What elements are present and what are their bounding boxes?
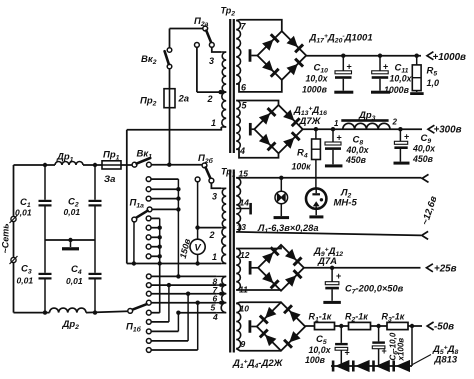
wire bottom rail left [14, 312, 50, 314]
wire P1b row9 riser to tap5 [151, 349, 198, 351]
svg-text:10,0х: 10,0х [309, 345, 332, 355]
wire tap5 to bridge2 top [236, 101, 278, 106]
ground bridge4 chassis [251, 326, 257, 328]
node R4 junction [314, 127, 318, 131]
svg-text:~Сеть: ~Сеть [1, 223, 11, 253]
node C10 junction [341, 54, 345, 58]
node C1 top junction [43, 163, 47, 167]
svg-text:10,0х: 10,0х [390, 74, 413, 84]
wire Dr1 to Pr1 [83, 164, 102, 166]
terminal ~12.6v upper [422, 174, 428, 182]
ground bridge1 negative chassis [251, 55, 257, 57]
wire R3 to -50v [408, 325, 422, 327]
svg-text:МН-5: МН-5 [334, 198, 358, 209]
wire tap1 drop to bottom [126, 130, 128, 264]
capacitor C3 [44, 240, 46, 273]
wire tap15 filament bus [236, 177, 421, 179]
node C2 top junction [93, 163, 97, 167]
node P1a lower bus dots [158, 226, 162, 230]
wire P1b row8 riser to tap6 [151, 340, 188, 342]
switch P1b arm [132, 304, 146, 310]
wire P1b row tap7 [151, 284, 216, 286]
switch P2a throw contact tap3 [209, 43, 214, 48]
node R2-R3 junction [376, 324, 380, 328]
inductor Dr1 [55, 162, 83, 165]
wire middle rail [45, 239, 95, 241]
svg-text:40,0х: 40,0х [412, 144, 436, 154]
wire P1b row6 riser to tap7 [151, 321, 169, 323]
svg-text:14: 14 [240, 198, 250, 208]
capacitor C4 [94, 240, 96, 273]
switch P1a arm [136, 211, 147, 218]
svg-text:1000в: 1000в [384, 85, 410, 95]
terminal ~12.6v lower [422, 231, 428, 239]
lamp L1 pilot [279, 176, 283, 180]
node P1a bus to tap8 [176, 274, 180, 278]
svg-text:+: + [336, 271, 341, 281]
wire tap4 row [178, 312, 216, 314]
svg-text:+25в: +25в [434, 264, 457, 275]
wire Vk1 to junction [151, 164, 169, 166]
svg-text:+: + [337, 133, 342, 143]
svg-text:1000в: 1000в [302, 85, 328, 95]
svg-text:10,0х: 10,0х [306, 74, 329, 84]
resistor R1 [315, 322, 335, 329]
svg-text:40,0х: 40,0х [346, 145, 370, 155]
wire tap7 to bridge1 top [236, 20, 282, 31]
wire P1b row7 riser to tap4 [151, 330, 178, 332]
inductor Dr2 [50, 308, 87, 313]
capacitor C8 [332, 129, 334, 142]
wire tap9 to bridge4 [236, 349, 281, 351]
svg-text:2: 2 [392, 118, 398, 127]
resistor R5 [416, 56, 418, 65]
wire bridge4 to R1 [305, 325, 314, 327]
switch P2a arm [206, 31, 211, 43]
terminal -50v [427, 322, 433, 330]
svg-text:2а: 2а [178, 94, 190, 105]
ground bridge2 negative chassis [252, 128, 255, 130]
svg-text:12: 12 [240, 250, 250, 260]
switch P1b contacts [146, 274, 151, 279]
switch P1a arm contact [147, 207, 152, 212]
wire Tr1 tap1 long [127, 263, 222, 265]
wire +25v rail [304, 267, 421, 269]
wire P2a pivot to Vk2 [170, 28, 203, 30]
node tap2 voltmeter junction [195, 225, 199, 229]
Tr2 primary winding [222, 52, 226, 92]
svg-text:2: 2 [209, 230, 215, 240]
svg-text:Д813: Д813 [434, 355, 458, 366]
wire tap6 to bridge1 bottom [236, 80, 282, 92]
svg-text:V: V [194, 243, 201, 254]
svg-text:Д7А: Д7А [317, 256, 337, 267]
wire P1a lower contacts bus [151, 217, 160, 219]
wire voltmeter bottom [197, 254, 199, 263]
switch P1a upper contacts [146, 177, 151, 182]
voltmeter V [190, 239, 205, 254]
switch P2a throw contact tap2 [195, 43, 200, 48]
svg-text:+: + [347, 62, 352, 72]
terminal +25v [427, 264, 433, 272]
fuse Pr1 [102, 161, 121, 169]
node tap1 voltmeter junction [195, 261, 199, 265]
svg-text:450в: 450в [412, 154, 434, 164]
node mains input terminal upper [11, 216, 16, 221]
wire P1b row tap8 [151, 275, 216, 277]
rectifier bridge U2 diodes D13-D16 [254, 105, 302, 153]
node C3 bottom junction [43, 310, 47, 314]
node 2 C9 junction [398, 127, 402, 131]
svg-text:0,01: 0,01 [17, 276, 34, 286]
node riser tap4 junction [176, 311, 180, 315]
svg-text:х100в: х100в [397, 338, 406, 362]
wire zener chain bus [331, 365, 412, 367]
svg-text:0,01: 0,01 [64, 207, 81, 217]
wire Vk2 to Pr2 [169, 69, 171, 89]
svg-text:За: За [104, 174, 115, 185]
fuse Pr2 [164, 89, 175, 108]
switch P2b throw contact tap3 [209, 178, 214, 183]
node riser tap5 junction [196, 301, 200, 305]
svg-text:10: 10 [240, 304, 250, 314]
capacitor C9 [399, 129, 401, 141]
resistor R4 [315, 129, 317, 139]
node R5 junction [415, 54, 419, 58]
wire mains top rail [14, 164, 56, 166]
capacitor C1 [44, 165, 46, 200]
wire junction to P2b pivot [169, 164, 202, 166]
node R1-R2 junction [339, 324, 343, 328]
node C11 junction [378, 54, 382, 58]
svg-text:100в: 100в [305, 355, 326, 365]
wire +300v rail [303, 128, 422, 130]
wire P1b row5 to tap1 riser [151, 312, 160, 314]
node riser tap7 junction [167, 283, 171, 287]
wire Dr2 to P1b pivot [86, 311, 128, 312]
zener diodes D5-D8 chain [332, 361, 335, 372]
svg-text:+: + [345, 348, 350, 358]
switch P1b pivot [128, 309, 133, 314]
rectifier bridge U3 diodes D9-D12 [258, 245, 304, 291]
svg-text:13: 13 [237, 222, 247, 232]
label D5-D8 D813 with callout [413, 355, 432, 365]
capacitor C2 [94, 165, 96, 200]
wire P1a pole down to tap1 wire [133, 222, 135, 264]
terminal +300v [428, 125, 434, 133]
node winding tap dots [219, 283, 223, 287]
wire +1000v rail [306, 55, 421, 57]
node Tr2 tap2 junction [218, 90, 222, 94]
wire Pr1 to Vk1 [121, 164, 132, 166]
wire tap3 stub [212, 47, 222, 52]
capacitor C5 [340, 326, 342, 343]
wire tap11 to bridge3 [236, 288, 281, 291]
wire tap14 center [236, 208, 249, 210]
inductor Dr3 [341, 119, 388, 122]
node lower bus tap1 junction [158, 261, 162, 265]
wire R4 to lamp L2 [315, 160, 317, 188]
svg-text:100к: 100к [292, 162, 312, 172]
svg-text:+300в: +300в [434, 125, 462, 136]
resistor R2 [349, 322, 371, 329]
wire P1b row tap6 [151, 293, 216, 295]
svg-text:+: + [383, 62, 388, 72]
svg-text:450в: 450в [345, 155, 367, 165]
wire tap12 to bridge3 [236, 246, 281, 248]
node P1a pole junction [132, 261, 136, 265]
wire mains left vertical [13, 165, 15, 217]
transformer Tr2 core [229, 19, 231, 153]
rectifier bridge U1 diodes D17-D20 [257, 31, 306, 80]
svg-text:4: 4 [239, 146, 245, 156]
svg-text:1: 1 [212, 252, 217, 262]
svg-text:3: 3 [209, 56, 214, 66]
ground middle rail chassis [68, 238, 72, 242]
svg-text:2: 2 [207, 94, 213, 104]
svg-text:0,01: 0,01 [66, 276, 83, 286]
wire -50v riser to zener chain [411, 326, 413, 366]
switch P2b pivot [202, 163, 207, 168]
capacitor C10 [342, 56, 344, 71]
switch Vk2 [167, 48, 172, 53]
Tr2 secondary winding 5-4 [236, 101, 240, 150]
svg-text:1: 1 [334, 119, 339, 128]
node riser tap6 junction [186, 292, 190, 296]
wire tap1 riser [159, 264, 161, 313]
svg-text:9: 9 [241, 339, 246, 349]
node P1a bus dots [176, 187, 180, 191]
node C4 bottom junction [93, 310, 97, 314]
svg-text:0,01: 0,01 [15, 208, 32, 218]
transformer Tr1 core [229, 170, 231, 353]
svg-text:+: + [382, 346, 387, 356]
Tr1 filament winding 15-13 [236, 178, 241, 232]
terminal +1000v [427, 52, 433, 60]
wire P1b row tap5 [151, 302, 216, 304]
node C7 junction [330, 266, 334, 270]
svg-text:+1000в: +1000в [433, 52, 467, 63]
wire tap13 [236, 232, 421, 236]
wire P2b to Tr1 tap3 [211, 183, 221, 188]
Tr1 primary winding lower [222, 276, 226, 285]
Tr1 winding 12-11 [236, 249, 240, 291]
svg-text:1,0: 1,0 [427, 78, 440, 88]
Tr1 winding 10-9 [236, 304, 241, 349]
wire P1a upper contacts bus [151, 178, 179, 180]
Tr2 secondary winding 7-6 [236, 21, 241, 85]
capacitor C7 [331, 268, 333, 282]
Tr1 primary winding upper [222, 188, 226, 227]
svg-text:+: + [404, 132, 409, 142]
svg-text:-50в: -50в [434, 322, 454, 333]
svg-text:1: 1 [211, 118, 216, 128]
svg-text:Д1+Д4-Д2Ж: Д1+Д4-Д2Ж [232, 358, 284, 370]
switch P2a pivot [203, 26, 208, 31]
svg-text:Д7Ж: Д7Ж [299, 116, 322, 127]
capacitor C11 [379, 56, 381, 71]
switch Vk1 [132, 162, 137, 167]
wire tap2 from P2a [196, 47, 198, 92]
node junction fuse branch on mains bus [167, 163, 171, 167]
node -50v riser junction [410, 324, 414, 328]
rectifier bridge U4 diodes D1-D4 [257, 302, 305, 350]
switch P1a lower contacts [146, 216, 151, 221]
resistor R3 [387, 322, 408, 329]
switch P2b arm [206, 168, 211, 179]
ground bridge3 chassis [251, 267, 258, 269]
wire Pr2 down to mains bus [169, 108, 171, 165]
svg-text:3: 3 [212, 192, 217, 202]
capacitor C6 [378, 326, 380, 341]
node 1 C8 junction [331, 127, 335, 131]
svg-text:5: 5 [211, 303, 216, 313]
wire Tr1 tap2 to voltmeter line [195, 227, 221, 229]
switch P2b throw contact voltmeter [195, 177, 200, 182]
wire tap10 to bridge4 [236, 302, 281, 303]
wire tap4 to bridge2 bottom [236, 149, 278, 158]
node mains input terminal lower [11, 257, 16, 262]
lamp L2 neon MN-5 [315, 187, 317, 190]
ground tap14 chassis [249, 203, 252, 215]
wire voltmeter top [197, 182, 199, 239]
switch P1a pivot [132, 217, 137, 222]
